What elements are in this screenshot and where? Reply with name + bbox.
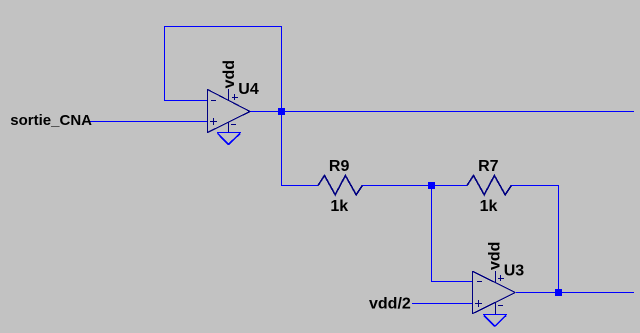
node C junction square bbox=[555, 289, 562, 296]
ground (U4) bbox=[217, 132, 241, 145]
wire U3 output to right edge bbox=[516, 292, 634, 293]
wire R7 to feedback corner bbox=[511, 185, 559, 186]
wire vdd/2 to U3 non-inverting input bbox=[412, 303, 473, 304]
wire feedback top (U4 output to inverting input) bbox=[164, 26, 282, 27]
resistor R7 bbox=[467, 176, 511, 195]
op-amp U3 bbox=[472, 271, 516, 314]
wire node B to R7 bbox=[431, 185, 467, 186]
svg-text:1k: 1k bbox=[480, 198, 498, 215]
svg-text:R9: R9 bbox=[329, 158, 350, 175]
wire feedback left vertical bbox=[164, 26, 165, 101]
svg-text:vdd/2: vdd/2 bbox=[369, 295, 411, 312]
svg-text:sortie_CNA: sortie_CNA bbox=[10, 112, 92, 129]
svg-text:vdd: vdd bbox=[486, 242, 503, 270]
resistor R9 bbox=[318, 176, 362, 195]
svg-text:1k: 1k bbox=[330, 198, 348, 215]
svg-text:R7: R7 bbox=[478, 158, 499, 175]
wire R9 to node B bbox=[362, 185, 431, 186]
op-amp U4 bbox=[207, 89, 250, 133]
ground (U3) bbox=[483, 314, 507, 326]
svg-text:vdd: vdd bbox=[221, 60, 238, 88]
node A junction square bbox=[278, 108, 285, 115]
wire node A row to R9 bbox=[281, 185, 318, 186]
wire into U4 inverting input bbox=[164, 100, 208, 101]
wire node B down bbox=[431, 185, 432, 282]
wire feedback right vertical bbox=[281, 26, 282, 112]
wire feedback down to U3 output bbox=[558, 185, 559, 293]
wire U4 output to right edge bbox=[250, 111, 634, 112]
svg-text:U3: U3 bbox=[504, 263, 525, 280]
node B junction square bbox=[428, 182, 435, 189]
wire node A down to resistor row bbox=[281, 111, 282, 186]
wire into U3 inverting input bbox=[431, 281, 473, 282]
svg-text:U4: U4 bbox=[238, 81, 259, 98]
wire sortie_CNA to U4 non-inverting input bbox=[90, 121, 208, 122]
